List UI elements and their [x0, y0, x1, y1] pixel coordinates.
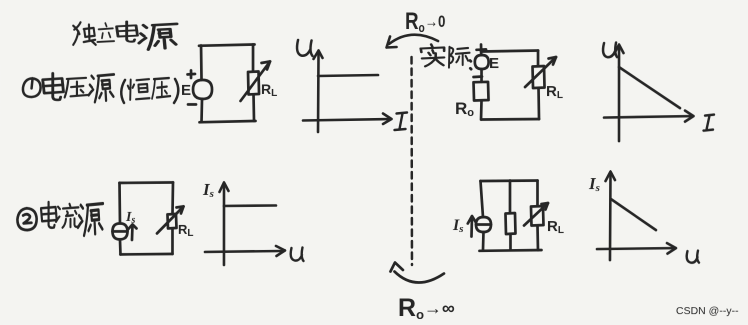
resistor RL4 body: [531, 206, 544, 226]
wire right upper: [536, 181, 539, 207]
wire bottom: [482, 118, 540, 121]
RL2 variable arrow: [525, 57, 556, 87]
minus: [188, 103, 196, 106]
resistor R0b body: [505, 213, 515, 234]
svg-text:E: E: [181, 82, 191, 99]
wire left lower: [200, 99, 203, 122]
svg-text:E: E: [489, 55, 499, 72]
wire right lower: [252, 94, 255, 121]
wire right upper: [252, 44, 255, 71]
circuit 2: actual voltage source: [474, 45, 557, 120]
h-axis: [303, 119, 390, 121]
label I graph2: [704, 115, 715, 131]
label u graph3: [291, 247, 304, 261]
circuit 4: actual current source: [468, 181, 548, 251]
annotation R0->0: [387, 8, 446, 48]
resistor R0 body: [474, 82, 489, 101]
wire right upper: [171, 182, 174, 214]
graph 4 axes: [597, 172, 676, 261]
v-axis: [618, 46, 621, 141]
constant u line: [318, 75, 378, 76]
resistor RL2 body: [533, 66, 545, 88]
wire top: [480, 179, 537, 182]
wire right lower: [171, 228, 174, 254]
divider dashed line: [410, 57, 413, 265]
wire top: [119, 181, 173, 184]
v-axis: [223, 184, 226, 265]
graph 2 axes: [604, 45, 694, 142]
label (1) 电压源(恒压): [23, 73, 178, 103]
h-axis: [604, 116, 692, 118]
RL4 variable arrow: [524, 203, 548, 226]
wire left lower: [119, 239, 122, 254]
Is up arrow: [131, 225, 134, 240]
label u graph4: [687, 251, 699, 263]
Is circle bar: [112, 230, 127, 233]
graph 1 axes: [303, 50, 392, 132]
wire bottom: [200, 121, 256, 122]
wire left upper: [480, 181, 483, 217]
graph 3 axes: [205, 182, 285, 265]
wire top: [199, 44, 255, 45]
label u graph1: [297, 40, 313, 56]
middle branch upper: [509, 181, 512, 214]
wire right lower: [537, 88, 540, 119]
wire left lower: [482, 232, 485, 251]
plus: [477, 45, 487, 56]
RL3 variable arrow: [157, 206, 184, 233]
title 独立电源: [73, 21, 177, 49]
plus: [188, 70, 196, 78]
middle branch lower: [509, 234, 512, 250]
wire bottom: [479, 249, 541, 253]
Is2 up arrow: [470, 217, 473, 237]
resistor RL1 body: [248, 71, 259, 94]
wire left upper: [200, 45, 203, 80]
RL1 variable arrow: [241, 61, 271, 101]
label I graph1: [395, 113, 408, 131]
declining line: [619, 67, 680, 108]
minus: [474, 75, 483, 78]
wire right upper: [537, 51, 540, 66]
source Is circle: [112, 223, 127, 239]
h-axis: [205, 251, 283, 252]
h-axis: [597, 248, 674, 249]
source E circle: [193, 80, 212, 99]
constant Is line: [224, 204, 276, 207]
source Is2 circle: [476, 217, 491, 232]
source E2 circle: [475, 55, 489, 69]
svg-text:CSDN @--y--: CSDN @--y--: [676, 305, 739, 317]
wire bottom: [120, 253, 172, 256]
circuit 1: ideal voltage source loop: [188, 44, 271, 122]
circuit 3: ideal current source loop: [112, 182, 183, 254]
wire left mid: [480, 69, 483, 82]
wire left upper: [118, 183, 121, 224]
Is2 circle bar: [476, 223, 491, 226]
svg-text:Ro→∞: Ro→∞: [398, 294, 455, 322]
v-axis: [609, 173, 612, 260]
label 实际:: [421, 44, 471, 69]
wire top: [481, 51, 538, 52]
label u graph2: [603, 43, 617, 58]
declining line: [611, 199, 656, 230]
v-axis: [317, 52, 320, 132]
label (2) 电流源: [17, 202, 103, 235]
svg-text:Ro→0: Ro→0: [405, 8, 445, 36]
resistor RL3 body: [167, 214, 176, 229]
wire right lower: [536, 226, 539, 251]
annotation R0->inf: [390, 263, 455, 323]
wire left lower: [480, 101, 483, 120]
